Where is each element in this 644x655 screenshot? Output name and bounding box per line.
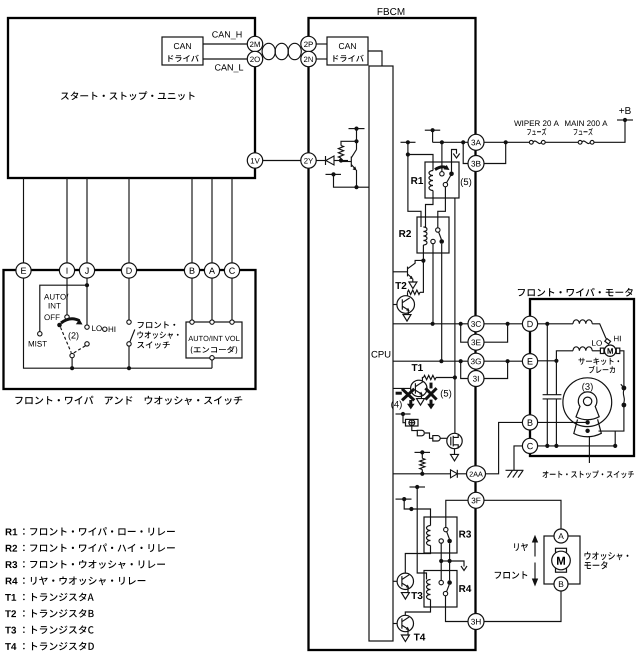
wire CAN_L (unit to 2O)	[203, 58, 247, 60]
wire R2 lower contact down to 3C line	[432, 244, 434, 324]
wire emitter to left stub	[334, 174, 357, 187]
CAN driver label (FBCM)	[339, 43, 356, 49]
ground MOSFET	[454, 449, 456, 455]
relay R1 lower contact	[443, 182, 447, 186]
relay R1 coil	[429, 171, 433, 191]
wire CPU to 3C	[393, 323, 468, 325]
wire stub down to R2 feed	[408, 155, 421, 228]
start-stop unit box	[8, 18, 255, 178]
transistor T4	[397, 615, 413, 631]
wire buffer2 to MOSFET	[440, 437, 447, 439]
connector 3C	[468, 316, 484, 332]
rotor arm dashed	[61, 327, 72, 353]
wire motor to breaker	[620, 351, 624, 386]
relay R3 box	[424, 517, 457, 553]
wire buffer1 to buffer2	[425, 433, 433, 438]
wire 3C to D	[484, 323, 522, 325]
label front (washer)	[495, 571, 528, 579]
relay R4 lower contact	[443, 591, 447, 595]
wire rail to R1 contact	[441, 142, 443, 171]
inductor (LO winding)	[573, 347, 592, 351]
transistor Q5 (wiper driver)	[397, 296, 415, 314]
wire junction to fuse1	[506, 141, 530, 143]
wire J down	[86, 278, 88, 325]
relay R2 lower contact	[431, 239, 435, 243]
cam keyhole	[576, 392, 599, 420]
CAN driver box (unit)	[162, 37, 203, 65]
label T2	[395, 282, 406, 289]
wire inductor to HI brush	[592, 324, 606, 339]
wire T4 emitter	[407, 630, 409, 635]
wire pivot to bus	[71, 358, 73, 368]
node inter-relay b	[448, 559, 452, 563]
washer motor brushes	[556, 548, 567, 552]
relay R2 label	[399, 230, 411, 237]
resistor (driver collector)	[408, 290, 421, 294]
contact OFF	[65, 315, 69, 319]
connector 3G	[468, 353, 484, 369]
wire unit to C	[231, 178, 233, 263]
CPU box	[369, 66, 393, 641]
encoder contact A	[210, 320, 214, 324]
CAN driver label (unit)	[174, 43, 191, 49]
connector A (switch)	[204, 263, 219, 278]
wire diode to 2AA	[457, 473, 466, 475]
oscillator box	[406, 419, 419, 426]
direction arrow up	[534, 541, 536, 557]
washer switch top contact	[127, 320, 131, 324]
relay R3 lower contact	[439, 539, 443, 543]
node inter-relay a	[439, 559, 443, 563]
wire stub to resistor	[421, 452, 423, 458]
switch box	[4, 270, 256, 389]
relay R2 top contact	[436, 228, 440, 232]
chassis ground	[506, 469, 524, 471]
connector E (motor)	[522, 354, 537, 369]
resistor (T1 collector)	[424, 375, 437, 379]
node E-line branch	[506, 359, 510, 363]
encoder label	[188, 336, 239, 342]
label HI	[109, 327, 116, 333]
connector 2O	[247, 51, 262, 66]
label (3)	[582, 383, 592, 392]
wire B internal	[538, 421, 588, 423]
relay R1 label	[411, 177, 423, 184]
label CAN_H	[212, 31, 241, 39]
stub with node (left)	[326, 173, 342, 175]
wire contacts into R4	[440, 561, 442, 580]
connector 1V	[247, 153, 262, 168]
relay R4 coil	[427, 580, 431, 600]
wire unit to I	[66, 178, 68, 263]
relay R2 box	[417, 217, 449, 253]
transistor T3	[397, 573, 413, 589]
node D-line branch	[506, 322, 510, 326]
wire Q5 base	[393, 304, 397, 306]
relay R2 coil	[423, 227, 427, 245]
capacitor wire 2	[555, 361, 557, 395]
diode D2 (2AA)	[451, 470, 458, 478]
contact LO2	[85, 342, 89, 346]
connector C (motor)	[522, 438, 537, 453]
wire fuse1 to fuse2	[545, 141, 578, 143]
label washer motor	[585, 552, 629, 560]
connector J (switch)	[79, 263, 94, 278]
encoder contact C	[230, 320, 234, 324]
washer switch arm	[130, 330, 135, 342]
FBCM label	[378, 8, 405, 15]
twisted pair loop 1	[262, 43, 275, 59]
connector 2M	[247, 36, 262, 51]
legend R1	[6, 529, 18, 536]
label MAIN 200 A	[565, 120, 607, 126]
label (5) R1	[461, 178, 471, 187]
wire 3G to E	[484, 360, 522, 362]
wire R2 moving contact down to 3G line	[441, 244, 443, 361]
wire inductor to motor	[592, 350, 600, 352]
auto-stop switch label	[543, 470, 634, 478]
wire stub to osc box	[403, 414, 406, 423]
wire resistor top	[341, 141, 357, 145]
option mark X (4)	[402, 389, 414, 401]
node base junction	[339, 158, 343, 162]
auto-stop follower	[574, 419, 602, 436]
rotor pivot contact	[70, 353, 74, 357]
circuit breaker	[622, 386, 627, 391]
node on 3G line (3I)	[459, 359, 463, 363]
node emitter junction	[354, 185, 358, 189]
wire B to encoder	[191, 278, 193, 320]
diode D1 (2Y input)	[325, 156, 327, 165]
ground T2	[409, 282, 417, 289]
label LO	[92, 325, 102, 331]
direction arrow down	[534, 563, 536, 581]
connector B (washer)	[554, 577, 568, 591]
connector 3I	[468, 371, 484, 387]
wire emitter to CPU	[357, 186, 370, 188]
wire fuse2 to +B	[594, 120, 625, 142]
wire 1V to 2Y	[263, 160, 301, 162]
wiper motor label	[518, 288, 633, 297]
resistor (2AA)	[420, 458, 425, 469]
terminal +B	[617, 119, 633, 121]
resistor (2Y pullup)	[338, 146, 343, 159]
wire stub to R1 coil	[407, 142, 409, 154]
wire unit to A	[211, 178, 213, 263]
wire 2Y to diode	[316, 160, 325, 162]
label T1	[412, 364, 423, 371]
label (4)	[391, 401, 401, 410]
option mark X (5)	[425, 388, 436, 399]
label OFF	[44, 314, 59, 320]
legend T4	[5, 643, 16, 650]
supply stub A	[410, 486, 426, 488]
connector B (switch)	[184, 263, 199, 278]
wire 3A to junction	[484, 141, 506, 143]
contact LO	[85, 325, 89, 329]
buffer symbol 2	[433, 436, 440, 441]
ground T3	[401, 593, 409, 600]
ground Q5	[403, 315, 411, 322]
inductor (HI winding)	[573, 320, 592, 324]
encoder bottom contact	[210, 356, 214, 360]
FBCM box	[309, 18, 476, 650]
wire T1 base	[393, 387, 411, 389]
wire unit to E	[23, 178, 25, 263]
relay R1 fixed contact	[440, 172, 444, 176]
supply stub (above R1)	[425, 129, 440, 131]
wiper motor box	[530, 299, 634, 456]
supply stub (left of R1)	[401, 141, 416, 143]
wire unit to J	[86, 178, 88, 263]
legend R3	[6, 561, 18, 568]
connector E (switch)	[16, 263, 31, 278]
wire rail to 3B	[463, 142, 468, 163]
connector 3F	[468, 492, 484, 508]
encoder box	[186, 322, 242, 358]
fuse MAIN 200 A	[578, 140, 582, 144]
connector 2P	[301, 36, 316, 51]
wire C to chassis ground	[514, 446, 522, 470]
cam wheel (3)	[563, 378, 612, 427]
wire E internal	[538, 351, 573, 361]
buffer symbol 1	[417, 430, 424, 436]
wire junction bar	[441, 560, 449, 562]
wire J branch to MIST	[40, 285, 87, 331]
wire T1 emitter down	[420, 394, 422, 398]
node rail a	[440, 140, 444, 144]
label riya	[514, 543, 528, 551]
relay R3 label	[459, 531, 471, 538]
node 3A/3B junction	[504, 140, 508, 144]
HI brush contact	[605, 339, 611, 345]
connector C (switch)	[224, 263, 239, 278]
wire R2 coil bottom	[422, 245, 424, 261]
washer switch lower contact	[127, 342, 131, 346]
wire A to encoder	[211, 278, 213, 320]
motor M (washer)	[552, 551, 571, 570]
connector 2AA	[467, 466, 486, 482]
wire CPU to diode	[393, 473, 451, 475]
label HI	[614, 336, 621, 342]
wire stubB to R3 coil	[404, 499, 430, 525]
wire stub to rail	[432, 130, 434, 142]
relay R1 moving contact	[449, 172, 454, 177]
wire R4 contact to 3H	[446, 596, 469, 622]
relay R4 box	[424, 571, 457, 608]
encoder contact B	[190, 320, 194, 324]
wire Q5 collector to resistor	[407, 292, 409, 296]
relay R3 top contact	[444, 527, 448, 531]
wire unit to B	[191, 178, 193, 263]
label CAN_L	[215, 64, 243, 72]
ground T4	[401, 635, 409, 642]
node T1 resistor junction	[453, 375, 457, 379]
wire resistor to 2AA line	[421, 470, 423, 474]
circuit breaker label	[578, 358, 619, 365]
auto-stop switch label leader	[588, 436, 590, 463]
label MIST	[29, 341, 47, 347]
connector 3E	[468, 334, 484, 350]
wire T3 base	[393, 580, 397, 582]
wire D to washer switch	[128, 278, 130, 320]
rail to 3A	[433, 141, 468, 143]
supply stub (2AA)	[415, 451, 431, 453]
start-stop unit label	[61, 91, 195, 100]
fuse WIPER 20 A	[529, 140, 533, 144]
wire osc to buffer1	[412, 426, 418, 431]
switch box label	[15, 396, 242, 405]
wire R1 coil bottom	[426, 191, 434, 228]
wire Q5 emitter	[407, 310, 409, 314]
wire E to bus	[24, 278, 73, 368]
transistor Q (2Y input)	[350, 157, 352, 168]
legend R2	[6, 545, 17, 552]
MOSFET Q6	[447, 433, 462, 448]
wire R3 coil bottom to T3	[405, 546, 430, 573]
wire CPU to 3G	[393, 360, 468, 362]
node on 3C line (R2)	[431, 322, 435, 326]
twisted pair loop 3	[288, 43, 301, 59]
wire R3 contacts down	[449, 543, 451, 561]
node collector junction	[354, 139, 358, 143]
wire diode to base node	[334, 160, 348, 162]
wire 3E link	[461, 324, 468, 342]
rotation arc arrow	[61, 319, 80, 323]
wire 3I to branch	[484, 361, 508, 378]
node on 3C line (3E)	[459, 322, 463, 326]
rotor arm dashed 2	[74, 346, 86, 353]
supply stub (osc)	[396, 413, 411, 415]
wire D internal	[538, 323, 573, 325]
legend T1	[5, 594, 16, 601]
wire 3F to washer A	[484, 500, 561, 529]
connector 3H	[468, 614, 484, 630]
label T4	[414, 634, 426, 641]
wire 3B to junction	[484, 142, 506, 163]
supply stub (2Y circuit)	[349, 128, 365, 130]
relay R3 coil	[427, 526, 431, 546]
arrow symbol (washer relays)	[450, 561, 464, 567]
wire T3 emitter	[407, 587, 409, 592]
rotor position dot	[57, 323, 62, 328]
label WIPER 20 A	[514, 120, 559, 126]
bus wire	[72, 367, 212, 369]
wire R1 lower contact to R2	[438, 187, 446, 228]
wire washer B to 3H	[484, 591, 561, 622]
relay R1 box	[425, 162, 459, 198]
relay R2 moving contact	[439, 239, 444, 244]
wire CAN driver to CPU	[368, 51, 382, 66]
node on 2AA line	[420, 472, 424, 476]
connector 2N	[301, 51, 316, 66]
supply stub B	[396, 498, 412, 500]
connector 3B	[468, 156, 484, 172]
transistor T1	[411, 380, 427, 396]
wire 2P to CAN driver	[316, 43, 327, 45]
relay R4 top contact	[439, 580, 443, 584]
wire encoder to bus	[211, 360, 213, 368]
washer motor body box	[544, 536, 580, 584]
contact MIST	[38, 332, 42, 336]
arrow symbol (5) at R1	[452, 150, 457, 172]
wire follower to C line	[599, 431, 616, 446]
node rail b	[461, 140, 465, 144]
relay R4 moving contact	[447, 580, 452, 585]
label (5) T1	[441, 390, 451, 399]
relay R1 actuation arrow	[435, 167, 447, 170]
connector B (motor)	[522, 415, 537, 430]
wire I to OFF contact	[66, 278, 68, 315]
wire CAN_H (unit to 2M)	[203, 43, 247, 45]
connector I (switch)	[59, 263, 74, 278]
legend R4	[6, 578, 18, 585]
label T3	[411, 592, 422, 599]
connector 3A	[468, 134, 484, 150]
connector A (washer)	[554, 529, 568, 543]
wire C internal	[538, 445, 616, 447]
wire unit to D	[128, 178, 130, 263]
label AUTO/INT	[44, 294, 68, 300]
wire washer switch to bus	[128, 346, 130, 368]
CAN driver box (FBCM)	[327, 37, 368, 65]
wire T4 base	[393, 623, 397, 625]
node on 3G line (R2)	[439, 359, 443, 363]
twisted pair loop 2	[275, 43, 288, 59]
capacitor plates	[543, 394, 562, 396]
wire C to encoder	[231, 278, 233, 320]
wire 2N to CAN driver	[316, 58, 327, 60]
legend T3	[5, 627, 16, 634]
wire 3E to branch	[484, 324, 508, 342]
relay R4 label	[459, 585, 471, 592]
connector D (motor)	[522, 316, 537, 331]
connector D (switch)	[121, 263, 136, 278]
wire 2AA to motor B	[486, 422, 523, 473]
washer switch label	[138, 321, 176, 328]
wire stubA to R4 coil	[417, 487, 426, 580]
ground T1	[417, 399, 425, 406]
wire T1 collector up	[422, 378, 423, 382]
node junction 509	[409, 507, 413, 511]
connector 2Y	[301, 153, 316, 168]
wire to supply stub	[356, 129, 358, 142]
wire R4 coil bottom to T4	[405, 600, 430, 616]
relay R3 moving contact	[447, 539, 452, 544]
label (2)	[69, 332, 79, 340]
motor M (wiper)	[600, 348, 604, 353]
wire 3F into R3 contact	[446, 500, 468, 527]
legend T2	[5, 610, 16, 617]
vertical wire to T1/MOSFET	[454, 198, 456, 433]
capacitor wire 1	[546, 324, 548, 395]
contact HI	[103, 327, 107, 331]
transistor T2	[407, 267, 409, 277]
CPU label	[372, 351, 391, 358]
wire breaker to C line	[615, 405, 624, 431]
label LO	[592, 340, 602, 346]
wire 3I link	[461, 361, 468, 378]
